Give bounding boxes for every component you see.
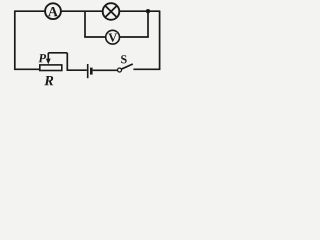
lamp L1 cross	[105, 6, 117, 18]
label R	[44, 76, 53, 85]
wire: voltmeter branch right horizontal	[120, 36, 149, 38]
wire: slider top horizontal	[48, 52, 67, 54]
switch S1 blade	[121, 64, 133, 69]
wire: top left segment to ammeter	[14, 10, 45, 12]
rheostat slider arrow	[46, 53, 51, 65]
label S	[121, 55, 127, 63]
battery BT1 short thick plate	[90, 68, 93, 75]
wire: top middle segment ammeter to lamp	[61, 10, 103, 12]
ammeter U1 circle	[45, 3, 61, 19]
switch S1 pivot	[118, 68, 122, 72]
wire: voltmeter branch right vertical up to node	[147, 11, 149, 37]
wire: battery to switch	[93, 69, 118, 71]
wire: right vertical	[159, 11, 161, 69]
voltmeter U2 circle	[106, 30, 120, 44]
ammeter label A	[48, 7, 58, 16]
wire: slider down vertical	[66, 53, 68, 70]
wire: voltmeter branch left vertical	[84, 11, 86, 37]
wire: top right segment lamp to corner	[119, 10, 160, 12]
wire: voltmeter branch left horizontal	[84, 36, 106, 38]
node junction dot	[146, 9, 150, 13]
voltmeter label V	[108, 34, 117, 42]
wire: left vertical	[14, 11, 16, 69]
battery BT1 long plate	[87, 64, 89, 78]
label P	[38, 54, 46, 62]
wire: bottom horizontal to battery	[67, 69, 87, 71]
wire: bottom left horizontal to rheostat	[14, 68, 40, 70]
wire: switch right stub	[133, 68, 160, 70]
lamp L1 circle	[103, 3, 120, 20]
resistor R rheostat body	[40, 65, 62, 71]
